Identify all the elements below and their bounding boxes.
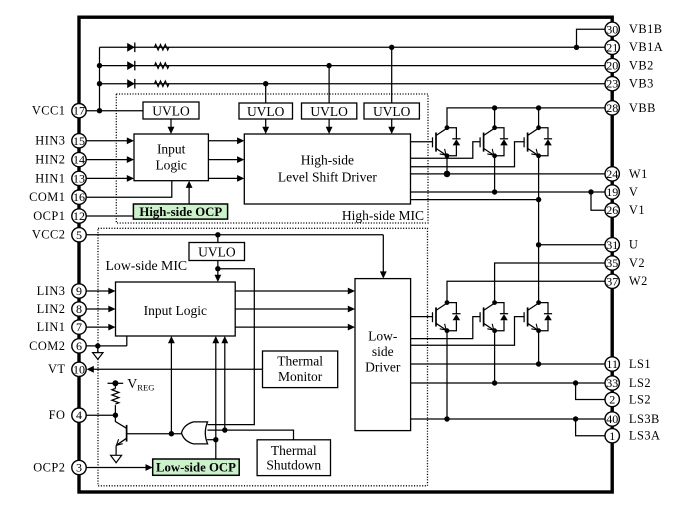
- svg-text:Low-: Low-: [368, 329, 398, 344]
- wire+arrow input logic 2 to LS driver (mid): [235, 308, 351, 310]
- svg-text:26: 26: [606, 203, 618, 217]
- svg-text:LS2: LS2: [629, 376, 651, 390]
- svg-text:UVLO: UVLO: [198, 244, 236, 259]
- svg-text:12: 12: [73, 209, 85, 223]
- wire+arrow LIN2 to input logic 2: [86, 308, 111, 310]
- bootstrap diode D3: [127, 79, 135, 88]
- ground symbol (COM2): [93, 353, 103, 360]
- svg-text:LIN3: LIN3: [37, 284, 66, 298]
- svg-text:VBB: VBB: [629, 101, 656, 115]
- wire bootstrap row 3 to pin VB3: [100, 83, 606, 85]
- junction dot LS3B branch: [573, 416, 578, 421]
- IGBT Q4 (low-side, W phase) with freewheel diode: [432, 312, 434, 322]
- wire V output row: [411, 191, 606, 193]
- IGBT Q2 (high-side, V phase) with freewheel diode: [479, 137, 481, 147]
- svg-text:Thermal: Thermal: [271, 443, 317, 458]
- svg-text:VB1A: VB1A: [629, 40, 663, 54]
- wire OCP1 to high-side OCP: [86, 215, 133, 217]
- pin 40 LS3B: [605, 412, 660, 426]
- UVLO box U2: [239, 103, 293, 119]
- svg-text:Thermal: Thermal: [277, 354, 323, 369]
- svg-text:21: 21: [606, 40, 618, 54]
- svg-text:1: 1: [609, 429, 615, 443]
- thermal monitor box: [263, 351, 338, 388]
- wire OR middle input from thermal shutdown: [207, 430, 293, 440]
- svg-text:UVLO: UVLO: [247, 104, 285, 119]
- wire+arrow UVLO U1 to input logic: [170, 119, 172, 130]
- svg-text:COM2: COM2: [29, 339, 65, 353]
- junction dot FO node: [113, 413, 118, 418]
- svg-text:VCC2: VCC2: [32, 228, 66, 242]
- svg-text:UVLO: UVLO: [310, 104, 348, 119]
- svg-text:6: 6: [76, 339, 82, 353]
- svg-text:LS1: LS1: [629, 357, 651, 371]
- junction dot OCP riser/OR: [213, 437, 218, 442]
- wire VCC2 row: [86, 234, 383, 236]
- svg-text:8: 8: [76, 302, 82, 316]
- pin 13 HIN1: [35, 171, 86, 185]
- svg-text:HIN2: HIN2: [35, 153, 65, 167]
- svg-text:side: side: [372, 344, 394, 359]
- svg-text:3: 3: [76, 461, 82, 475]
- input logic box (high side): [134, 134, 208, 181]
- svg-text:33: 33: [606, 376, 618, 390]
- wire+arrow input logic 2 to LS driver (bot): [235, 326, 351, 328]
- IGBT Q6 (low-side, U phase) with freewheel diode: [523, 312, 525, 322]
- svg-text:VB2: VB2: [629, 59, 654, 73]
- svg-text:Low-side MIC: Low-side MIC: [106, 258, 188, 273]
- svg-text:31: 31: [606, 238, 618, 252]
- svg-text:23: 23: [606, 77, 618, 91]
- wire+arrow UVLO U5 to input logic 2: [217, 261, 219, 279]
- svg-text:20: 20: [606, 59, 618, 73]
- wire LS2 bracket to pin 2: [576, 383, 605, 400]
- svg-text:24: 24: [606, 167, 618, 181]
- bootstrap resistor R3: [155, 81, 169, 86]
- svg-text:High-side OCP: High-side OCP: [139, 205, 222, 219]
- pin 11 LS1: [605, 357, 651, 371]
- pin 26 V1: [605, 203, 645, 217]
- pin 35 V2: [605, 256, 645, 270]
- pin 17 VCC1: [32, 104, 86, 118]
- IGBT Q3 (high-side, U phase) with freewheel diode: [523, 137, 525, 147]
- wire row2 drop to UVLO3: [328, 66, 330, 103]
- wire bootstrap feed vertical from VCC1: [99, 47, 101, 110]
- svg-text:V: V: [629, 185, 638, 199]
- pin 8 LIN2: [37, 302, 87, 316]
- ground symbol (FO emitter): [111, 455, 122, 462]
- junction dot row1/UVLO drop: [389, 45, 394, 50]
- wire+arrow LIN1 to input logic 2: [86, 326, 111, 328]
- svg-text:V1: V1: [629, 203, 645, 217]
- pin 3 OCP2: [33, 460, 86, 474]
- wire row1 drop to UVLO4: [391, 47, 393, 103]
- svg-text:VT: VT: [48, 362, 66, 376]
- junction dot Q2/V: [492, 189, 497, 194]
- svg-text:7: 7: [76, 320, 82, 334]
- pin 15 HIN3: [35, 134, 86, 148]
- wire+arrow HIN3 to input logic: [86, 140, 130, 142]
- svg-text:VCC1: VCC1: [32, 104, 66, 118]
- svg-text:UVLO: UVLO: [152, 103, 190, 118]
- wire+arrow LIN3 to input logic 2: [86, 290, 111, 292]
- outer package border: [79, 17, 612, 492]
- wire Q6 emitter drop: [538, 331, 540, 364]
- wire VCC2 drop to UVLO5: [217, 235, 219, 243]
- wire COM1 to input logic: [86, 181, 172, 198]
- svg-text:LS3A: LS3A: [629, 429, 661, 443]
- pin 37 W2: [605, 274, 648, 288]
- svg-text:35: 35: [606, 256, 618, 270]
- junction dot V/V1 branch: [588, 189, 593, 194]
- wire Q1 emitter drop: [446, 156, 448, 174]
- pin 14 HIN2: [35, 152, 86, 166]
- wire+arrow input logic 2 to LS driver (top): [235, 290, 351, 292]
- UVLO box U3: [302, 103, 357, 119]
- junction dot Q3/U feedback: [536, 197, 541, 202]
- pin 6 COM2: [29, 339, 86, 353]
- svg-text:14: 14: [73, 153, 85, 167]
- pin 1 LS3A: [605, 429, 661, 443]
- svg-text:4: 4: [76, 408, 82, 422]
- wire FO lead: [86, 414, 115, 416]
- svg-text:FO: FO: [49, 408, 66, 422]
- junction dot base/riser: [169, 431, 174, 436]
- svg-text:37: 37: [606, 274, 618, 288]
- junction dot UVLO5 output branch: [215, 266, 220, 271]
- junction dot row1/VB1B link: [574, 45, 579, 50]
- junction dot feed/row3: [97, 81, 102, 86]
- junction dot COM2/ground: [95, 343, 100, 348]
- svg-text:High-side MIC: High-side MIC: [342, 208, 424, 223]
- wire LS driver gate2: [411, 317, 481, 339]
- wire bootstrap row 2 to pin VB2: [100, 65, 606, 67]
- low-side driver box: [355, 279, 411, 431]
- wire+arrow OCP2 to low-side OCP: [86, 467, 149, 469]
- svg-text:Logic: Logic: [155, 158, 187, 173]
- pin 21 VB1A: [605, 40, 663, 54]
- pin 31 U: [605, 238, 638, 252]
- svg-text:LS2: LS2: [629, 392, 651, 406]
- junction dot Q4/LS3B: [444, 416, 449, 421]
- wire HS driver gate2: [411, 142, 481, 159]
- svg-text:High-side: High-side: [301, 153, 354, 168]
- svg-text:LIN2: LIN2: [37, 302, 66, 316]
- wire LS2 row: [411, 382, 605, 384]
- wire LS3A bracket to pin 1: [576, 419, 605, 436]
- wire row3 drop to UVLO2: [265, 84, 267, 103]
- bootstrap resistor R2: [155, 63, 169, 68]
- pin 23 VB3: [605, 77, 654, 91]
- svg-text:10: 10: [73, 362, 85, 376]
- wire COM2 ground stub: [97, 346, 99, 353]
- wire W1 output row: [411, 173, 606, 175]
- IGBT Q1 (high-side, W phase) with freewheel diode: [432, 137, 434, 147]
- low-side OCP box: [153, 459, 240, 475]
- junction dot Q1/W1: [444, 171, 451, 178]
- pin 5 VCC2: [32, 228, 86, 242]
- low-side MIC dashed boundary box: [98, 228, 428, 486]
- svg-text:LS3B: LS3B: [629, 412, 660, 426]
- wire U output row: [539, 244, 605, 246]
- wire+arrow thermal monitor to VT: [91, 368, 263, 370]
- pin 7 LIN1: [37, 320, 87, 334]
- svg-text:17: 17: [73, 104, 85, 118]
- svg-text:Monitor: Monitor: [278, 369, 323, 384]
- wire+arrow UVLO U4 to HS driver: [391, 119, 393, 130]
- wire Q5 emitter drop: [494, 331, 496, 383]
- svg-text:Input: Input: [157, 142, 186, 157]
- wire bootstrap row 1 to pin VB1A: [100, 46, 606, 48]
- terminal V_REG: [108, 382, 124, 384]
- wire HS driver gate3: [411, 142, 525, 167]
- wire+arrow high-side OCP to input logic: [188, 185, 190, 204]
- svg-text:VB1B: VB1B: [629, 22, 663, 36]
- UVLO box U5: [189, 243, 245, 261]
- wire+arrow HIN2 to input logic: [86, 159, 130, 161]
- wire Q7 base to OR output: [127, 433, 183, 435]
- junction dot U row: [536, 242, 541, 247]
- wire W2 row to low-side Q4: [447, 281, 605, 302]
- svg-text:15: 15: [73, 134, 85, 148]
- svg-text:Low-side OCP: Low-side OCP: [156, 461, 236, 475]
- pin 4 FO: [49, 408, 87, 422]
- junction dot row3/UVLO drop: [263, 81, 268, 86]
- pin 33 LS2: [605, 376, 651, 390]
- wire HS driver gate1: [411, 141, 433, 143]
- transistor Q7 (FO open collector): [115, 415, 126, 428]
- wire UVLO5 branch to OR gate top input: [208, 269, 255, 425]
- svg-text:16: 16: [73, 190, 85, 204]
- svg-text:9: 9: [76, 284, 82, 298]
- junction dot Q5/LS2: [492, 380, 497, 385]
- svg-text:13: 13: [73, 171, 85, 185]
- wire VBB drop to Q3: [538, 108, 540, 128]
- svg-text:W2: W2: [629, 274, 648, 288]
- high-side OCP box: [133, 204, 227, 219]
- svg-text:OCP2: OCP2: [33, 460, 65, 474]
- wire VBB rail: [447, 108, 605, 128]
- wire+arrow HIN1 to input logic: [86, 177, 130, 179]
- bootstrap diode D2: [127, 61, 135, 70]
- bootstrap diode D1: [127, 43, 135, 52]
- junction dot LS2 branch: [573, 380, 578, 385]
- svg-text:UVLO: UVLO: [373, 104, 411, 119]
- junction dot VBB/Q3: [536, 105, 541, 110]
- wire+arrow TSD riser to input logic 2: [224, 340, 226, 430]
- wire V2 row to low-side Q5: [495, 263, 605, 303]
- pin 10 VT: [48, 362, 86, 376]
- wire LS driver gate3: [411, 317, 524, 346]
- wire OR bottom input from low-side OCP: [207, 439, 216, 441]
- wire COM2 lead: [86, 345, 127, 347]
- wire COM2 up into input logic 2: [126, 336, 128, 346]
- wire LS1 row: [411, 363, 605, 365]
- svg-text:30: 30: [606, 22, 618, 36]
- bootstrap resistor R1: [155, 45, 169, 50]
- pin 24 W1: [605, 167, 648, 181]
- UVLO box U4: [364, 103, 419, 119]
- svg-text:Shutdown: Shutdown: [266, 458, 321, 473]
- svg-text:VB3: VB3: [629, 77, 654, 91]
- wire+arrow input logic to HS driver (mid): [208, 159, 240, 161]
- wire LS driver gate1: [411, 316, 433, 318]
- svg-text:LIN1: LIN1: [37, 320, 66, 334]
- pin 30 VB1B: [605, 22, 663, 36]
- svg-text:5: 5: [76, 228, 82, 242]
- svg-text:2: 2: [609, 393, 615, 407]
- junction dot VBB/Q2: [492, 105, 497, 110]
- junction dot row2/UVLO drop: [326, 63, 331, 68]
- high-side level shift driver box: [244, 134, 410, 204]
- svg-text:Level Shift Driver: Level Shift Driver: [278, 170, 377, 185]
- svg-text:28: 28: [606, 101, 618, 115]
- svg-text:COM1: COM1: [29, 190, 65, 204]
- svg-text:Input Logic: Input Logic: [144, 303, 207, 318]
- svg-text:V2: V2: [629, 256, 645, 270]
- wire+arrow low-side OCP riser to input logic 2: [215, 340, 217, 459]
- pin 16 COM1: [29, 190, 86, 204]
- svg-text:Driver: Driver: [365, 360, 401, 375]
- pin 20 VB2: [605, 58, 654, 72]
- svg-text:19: 19: [606, 185, 618, 199]
- pin 12 OCP1: [33, 209, 86, 223]
- pin 2 LS2: [605, 392, 651, 406]
- thermal shutdown box: [257, 440, 330, 476]
- junction dot feed/row2: [97, 63, 102, 68]
- resistor R-FO (pull-up): [114, 383, 116, 388]
- wire+arrow UVLO U3 to HS driver: [328, 119, 330, 130]
- pin 19 V: [605, 185, 638, 199]
- svg-text:W1: W1: [629, 167, 648, 181]
- svg-text:40: 40: [606, 412, 618, 426]
- wire U feedback row: [411, 199, 539, 201]
- pin 9 LIN3: [37, 284, 87, 298]
- junction dot Q6/LS1: [536, 361, 541, 366]
- high-side MIC dashed boundary box: [116, 94, 428, 223]
- wire Q4 emitter drop: [446, 331, 448, 419]
- IGBT Q5 (low-side, V phase) with freewheel diode: [479, 312, 481, 322]
- wire LS3B row: [411, 418, 605, 420]
- wire VBB drop to Q2: [494, 108, 496, 128]
- svg-text:HIN1: HIN1: [35, 171, 65, 185]
- input logic box (low side): [116, 282, 236, 336]
- wire+arrow input logic to HS driver (top): [208, 140, 240, 142]
- wire+arrow OR output riser to input logic 2: [170, 340, 172, 434]
- svg-text:U: U: [629, 238, 638, 252]
- wire VB1B link: [577, 29, 606, 47]
- wire V1 bracket: [591, 192, 605, 210]
- junction dot VCC2/UVLO5: [215, 232, 220, 237]
- wire+arrow input logic to HS driver (bot): [208, 177, 240, 179]
- wire+arrow VCC2 to LS driver: [382, 235, 384, 275]
- junction dot TSD riser/OR: [222, 427, 227, 432]
- wire Q3 emitter drop to low side: [538, 156, 540, 303]
- svg-text:OCP1: OCP1: [33, 209, 65, 223]
- UVLO box U1: [143, 102, 199, 119]
- wire+arrow UVLO U2 to HS driver: [265, 119, 267, 130]
- svg-text:11: 11: [606, 357, 618, 371]
- pin 28 VBB: [605, 101, 656, 115]
- wire VCC1 to UVLO U1: [86, 110, 143, 112]
- OR gate G1: [182, 422, 208, 444]
- svg-text:HIN3: HIN3: [35, 134, 65, 148]
- wire Q2 emitter drop: [494, 156, 496, 192]
- junction dot feed/VCC1: [97, 108, 102, 113]
